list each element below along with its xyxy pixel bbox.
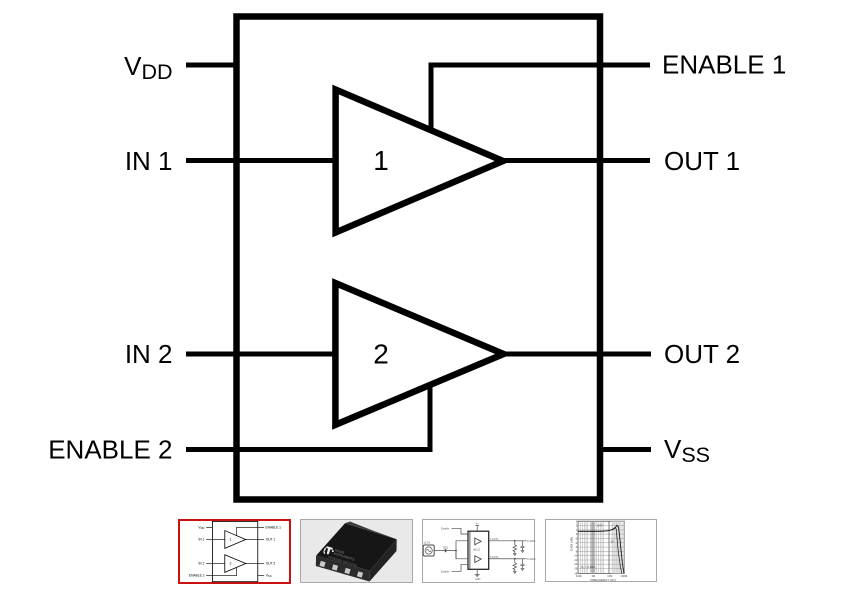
svg-text:0.7V: 0.7V	[597, 524, 603, 528]
svg-text:ENABLE 2: ENABLE 2	[48, 435, 172, 465]
shaded bands	[590, 521, 595, 573]
wire IN 2	[186, 352, 338, 357]
out2 wire	[489, 558, 527, 560]
svg-text:-12: -12	[574, 558, 578, 562]
svg-text:100M: 100M	[621, 574, 628, 578]
source	[423, 545, 434, 556]
svg-text:IN 2: IN 2	[125, 339, 173, 369]
svg-text:GND: GND	[475, 578, 481, 581]
svg-text:LOAD2: LOAD2	[527, 557, 536, 561]
svg-text:-16: -16	[574, 567, 578, 571]
svg-text:LOAD1: LOAD1	[527, 539, 536, 543]
svg-text:1 OUT1: 1 OUT1	[490, 538, 499, 541]
log vertical gridlines	[581, 521, 620, 573]
svg-text:Enable: Enable	[441, 570, 450, 574]
IC block	[468, 531, 489, 569]
y tick labels	[574, 519, 578, 575]
wire VDD stub	[186, 63, 236, 68]
thumbnail 2: package photo	[301, 520, 413, 583]
thumbnail 3: application schematic	[423, 520, 537, 583]
svg-text:AB123: AB123	[473, 549, 481, 552]
wire ENABLE 2 vertical	[428, 387, 433, 452]
buffer 2 triangle	[335, 283, 503, 425]
horizontal gridlines	[578, 526, 624, 569]
svg-text:VSS: VSS	[664, 434, 710, 467]
svg-text:IN 1: IN 1	[125, 146, 173, 176]
svg-text:P₀ = 0 dBm: P₀ = 0 dBm	[582, 565, 596, 569]
svg-text:2 OUT2: 2 OUT2	[490, 556, 499, 559]
R+C to gnd on out1	[513, 541, 517, 553]
svg-text:FREQUENCY (Hz): FREQUENCY (Hz)	[591, 578, 616, 582]
curves	[578, 525, 624, 573]
wire IN 1	[186, 158, 338, 163]
svg-text:GAIN (dB): GAIN (dB)	[569, 537, 573, 551]
svg-text:±2.5V: ±2.5V	[424, 541, 431, 545]
wire ENABLE 1 horizontal	[429, 63, 651, 68]
functional block diagram U1	[48, 17, 786, 500]
thumbnail 4: gain vs frequency graph	[546, 519, 657, 582]
svg-text:OUT 1: OUT 1	[664, 146, 740, 176]
svg-text:ENABLE 1: ENABLE 1	[662, 50, 786, 80]
svg-text:-10: -10	[574, 554, 578, 558]
IC outline box	[237, 17, 601, 500]
out1 wire	[489, 540, 527, 542]
svg-text:1: 1	[373, 145, 389, 176]
wire VSS stub	[600, 447, 651, 452]
wire OUT 2	[500, 352, 651, 357]
svg-text:-14: -14	[574, 562, 578, 566]
wire OUT 1	[500, 158, 650, 163]
gnd bottom	[476, 569, 478, 574]
buffer 1 triangle	[336, 90, 503, 233]
svg-text:Enable: Enable	[441, 527, 450, 531]
svg-text:1V: 1V	[611, 539, 614, 543]
split wires	[456, 541, 468, 559]
thumbnail 1: block diagram (selected, red border)	[179, 520, 290, 583]
wire ENABLE 1 vertical	[429, 63, 434, 131]
svg-text:2: 2	[373, 339, 389, 370]
R+C to gnd on out2	[513, 559, 517, 571]
svg-text:OUT 2: OUT 2	[664, 339, 740, 369]
svg-text:100k: 100k	[576, 574, 582, 578]
svg-text:50Ω: 50Ω	[443, 546, 448, 550]
x tick labels	[576, 574, 627, 578]
wire to junction	[434, 550, 456, 552]
svg-text:VDD: VDD	[124, 51, 172, 84]
wire ENABLE 2 horizontal	[186, 447, 433, 452]
